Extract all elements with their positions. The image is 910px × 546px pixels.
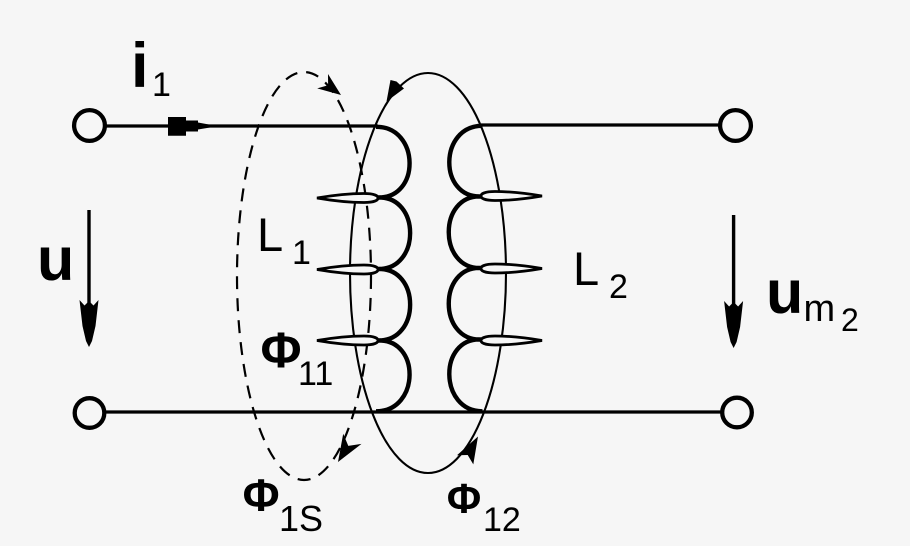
svg-text:1S: 1S bbox=[279, 498, 323, 539]
svg-text:u: u bbox=[766, 258, 803, 326]
svg-text:1: 1 bbox=[292, 234, 311, 272]
flux arrow on Φ12 top bbox=[387, 80, 405, 102]
svg-text:Φ: Φ bbox=[261, 322, 302, 378]
terminal node top-right bbox=[720, 110, 751, 141]
svg-text:i: i bbox=[131, 31, 149, 101]
flux loop Φ12 (solid mutual-flux ellipse) bbox=[350, 73, 506, 473]
wire top-left (terminal to L1) bbox=[103, 124, 378, 127]
svg-text:2: 2 bbox=[841, 302, 859, 338]
terminal node bottom-right bbox=[722, 398, 752, 428]
svg-text:u: u bbox=[37, 225, 74, 293]
flux loop Φ1S (dashed leakage-flux ellipse) bbox=[237, 72, 371, 480]
current arrow i1 on top-left wire bbox=[168, 117, 213, 136]
wire top-right (L2 to terminal) bbox=[481, 123, 721, 126]
wire bottom (left terminal to right terminal) bbox=[104, 410, 723, 413]
label L2 bbox=[573, 242, 628, 306]
label i1 bbox=[131, 31, 171, 104]
svg-text:2: 2 bbox=[609, 268, 628, 306]
label Φ1S bbox=[243, 470, 323, 539]
svg-text:Φ: Φ bbox=[447, 475, 481, 522]
svg-text:m: m bbox=[804, 288, 836, 330]
inductor L2 (right winding, 4 turns) bbox=[449, 126, 542, 412]
svg-text:1: 1 bbox=[152, 66, 171, 104]
svg-text:Φ: Φ bbox=[243, 470, 280, 521]
label L1 bbox=[257, 208, 311, 272]
terminal node top-left bbox=[74, 110, 105, 141]
flux arrow on Φ1S top bbox=[317, 74, 341, 95]
flux arrow on Φ1S bottom bbox=[338, 434, 362, 462]
label Φ11 bbox=[261, 322, 334, 393]
inductor L1 (left winding, 4 turns) bbox=[317, 127, 410, 412]
label u_m2 bbox=[766, 258, 859, 338]
svg-text:12: 12 bbox=[483, 501, 521, 539]
flux arrow on Φ12 bottom bbox=[457, 437, 478, 465]
voltage arrow u_m2 (right) bbox=[724, 215, 743, 348]
svg-text:L: L bbox=[257, 208, 283, 261]
terminal node bottom-left bbox=[75, 398, 105, 428]
voltage arrow u (left) bbox=[80, 210, 99, 347]
svg-text:11: 11 bbox=[298, 355, 333, 393]
svg-text:L: L bbox=[573, 242, 599, 295]
label Φ12 bbox=[447, 475, 521, 539]
